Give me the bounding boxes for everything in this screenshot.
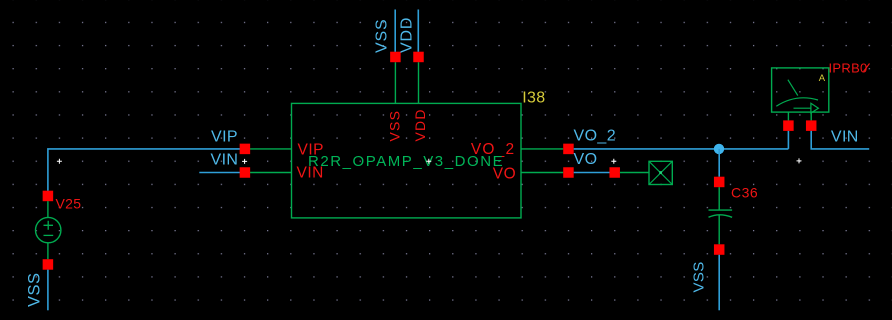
svg-text:VSS: VSS (691, 261, 708, 292)
V25 minus sign (44, 234, 54, 236)
I38 top pin stub VSS (394, 62, 396, 103)
current probe IPRB0 (772, 61, 870, 131)
pin square probe left (783, 120, 794, 130)
V25 bottom stub (47, 243, 49, 260)
I38 right pin stub VO (521, 172, 563, 174)
pin square C36 bottom (714, 244, 725, 255)
noConn symbol on VO (609, 161, 672, 184)
pin square I38 VSS (390, 52, 401, 63)
svg-text:VDD: VDD (399, 17, 416, 53)
I38 top pin stub VDD (418, 62, 420, 103)
origin marker IPRB0 (797, 158, 802, 163)
meter arrowhead (811, 103, 819, 113)
capacitor C36 (709, 177, 759, 255)
svg-text:R2R_OPAMP_V3_DONE: R2R_OPAMP_V3_DONE (308, 153, 504, 170)
pin square I38 VIP (240, 144, 251, 155)
svg-text:I38: I38 (522, 89, 545, 106)
pin square C36 top (714, 177, 725, 188)
op-amp instance I38 box (292, 103, 522, 217)
svg-text:VIN: VIN (831, 129, 859, 146)
wire VO_2 net horizontal (574, 148, 789, 150)
meter arrow shaft (794, 107, 811, 109)
I38 left pin stub VIN (250, 172, 292, 174)
svg-text:VSS: VSS (26, 272, 44, 307)
svg-text:VO: VO (574, 151, 598, 168)
probe box (772, 68, 829, 112)
origin marker I38 left (242, 159, 247, 164)
C36 bottom plate (arc) (709, 215, 733, 218)
pin square I38 VO_2 (563, 144, 574, 155)
pin square noConn (609, 167, 620, 178)
wire VO net short segment (574, 172, 615, 174)
wire VSS net below V25 (47, 270, 49, 311)
svg-text:A: A (819, 73, 826, 84)
probe left pin stub (787, 112, 789, 120)
voltage source V25 (36, 191, 82, 270)
probe right pin stub (810, 112, 812, 120)
C36 bottom stub (718, 216, 720, 245)
V25 top stub (47, 201, 49, 217)
origin marker I38 center (426, 159, 431, 164)
I38 right pin stub VO_2 (521, 148, 563, 150)
wire VIN net right (811, 131, 869, 149)
svg-text:VDD: VDD (412, 108, 428, 141)
wire VSS net below C36 (718, 255, 720, 310)
svg-text:VIP: VIP (211, 128, 238, 145)
svg-text:VSS: VSS (373, 19, 390, 53)
pin square I38 VO (563, 167, 574, 178)
pin square V25 minus (43, 259, 54, 270)
junction dot on VO_2 net (714, 144, 724, 154)
noConn center dot (659, 171, 662, 174)
svg-text:VO_2: VO_2 (574, 128, 617, 145)
meter needle (788, 80, 798, 96)
noConn stub (620, 172, 649, 174)
wire VSS net top vertical (394, 10, 396, 52)
C36 top plate (709, 209, 733, 211)
pin square V25 plus (43, 191, 54, 202)
pin square probe right (806, 120, 817, 130)
svg-text:VSS: VSS (386, 110, 402, 142)
V25 plus sign (44, 221, 54, 230)
wire probe left to VO_2 net (787, 131, 789, 149)
wire VIP net: corner from V25 to opamp input (48, 149, 245, 191)
wire VIN net stub (199, 172, 244, 174)
IPRB0 slashed zero (864, 64, 870, 72)
svg-text:IPRB0: IPRB0 (829, 61, 868, 76)
svg-text:VIN: VIN (211, 152, 239, 169)
wire VDD net top vertical (417, 10, 419, 52)
pin square I38 VDD (413, 52, 424, 63)
V25 circle (36, 217, 61, 242)
svg-text:V25: V25 (56, 196, 82, 212)
meter scale arc (776, 98, 818, 106)
origin marker V25 (57, 159, 62, 164)
noConn box (649, 161, 672, 184)
pin square I38 VIN (240, 167, 251, 178)
origin marker noConn (611, 159, 616, 164)
wire junction to C36 (718, 149, 720, 177)
noConn X diagonals (649, 161, 672, 184)
I38 left pin stub VIP (250, 148, 292, 150)
C36 top stub (718, 187, 720, 210)
svg-text:C36: C36 (731, 184, 758, 200)
